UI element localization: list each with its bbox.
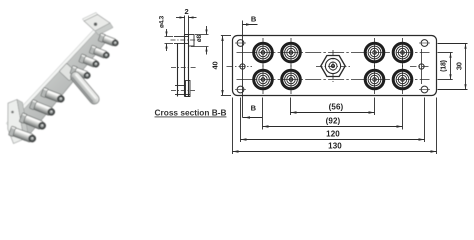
svg-text:120: 120 <box>326 129 340 138</box>
svg-text:B: B <box>251 104 257 113</box>
svg-text:(56): (56) <box>329 102 344 111</box>
svg-text:ø4.3: ø4.3 <box>158 15 165 28</box>
svg-text:Cross section B-B: Cross section B-B <box>155 108 227 118</box>
svg-text:30: 30 <box>455 62 464 70</box>
svg-text:2: 2 <box>185 7 189 16</box>
svg-text:(92): (92) <box>326 117 341 126</box>
svg-text:(18): (18) <box>440 60 447 72</box>
svg-text:B: B <box>251 15 257 24</box>
svg-text:40: 40 <box>211 62 220 70</box>
svg-text:ø8: ø8 <box>196 34 203 42</box>
svg-text:130: 130 <box>328 141 342 150</box>
